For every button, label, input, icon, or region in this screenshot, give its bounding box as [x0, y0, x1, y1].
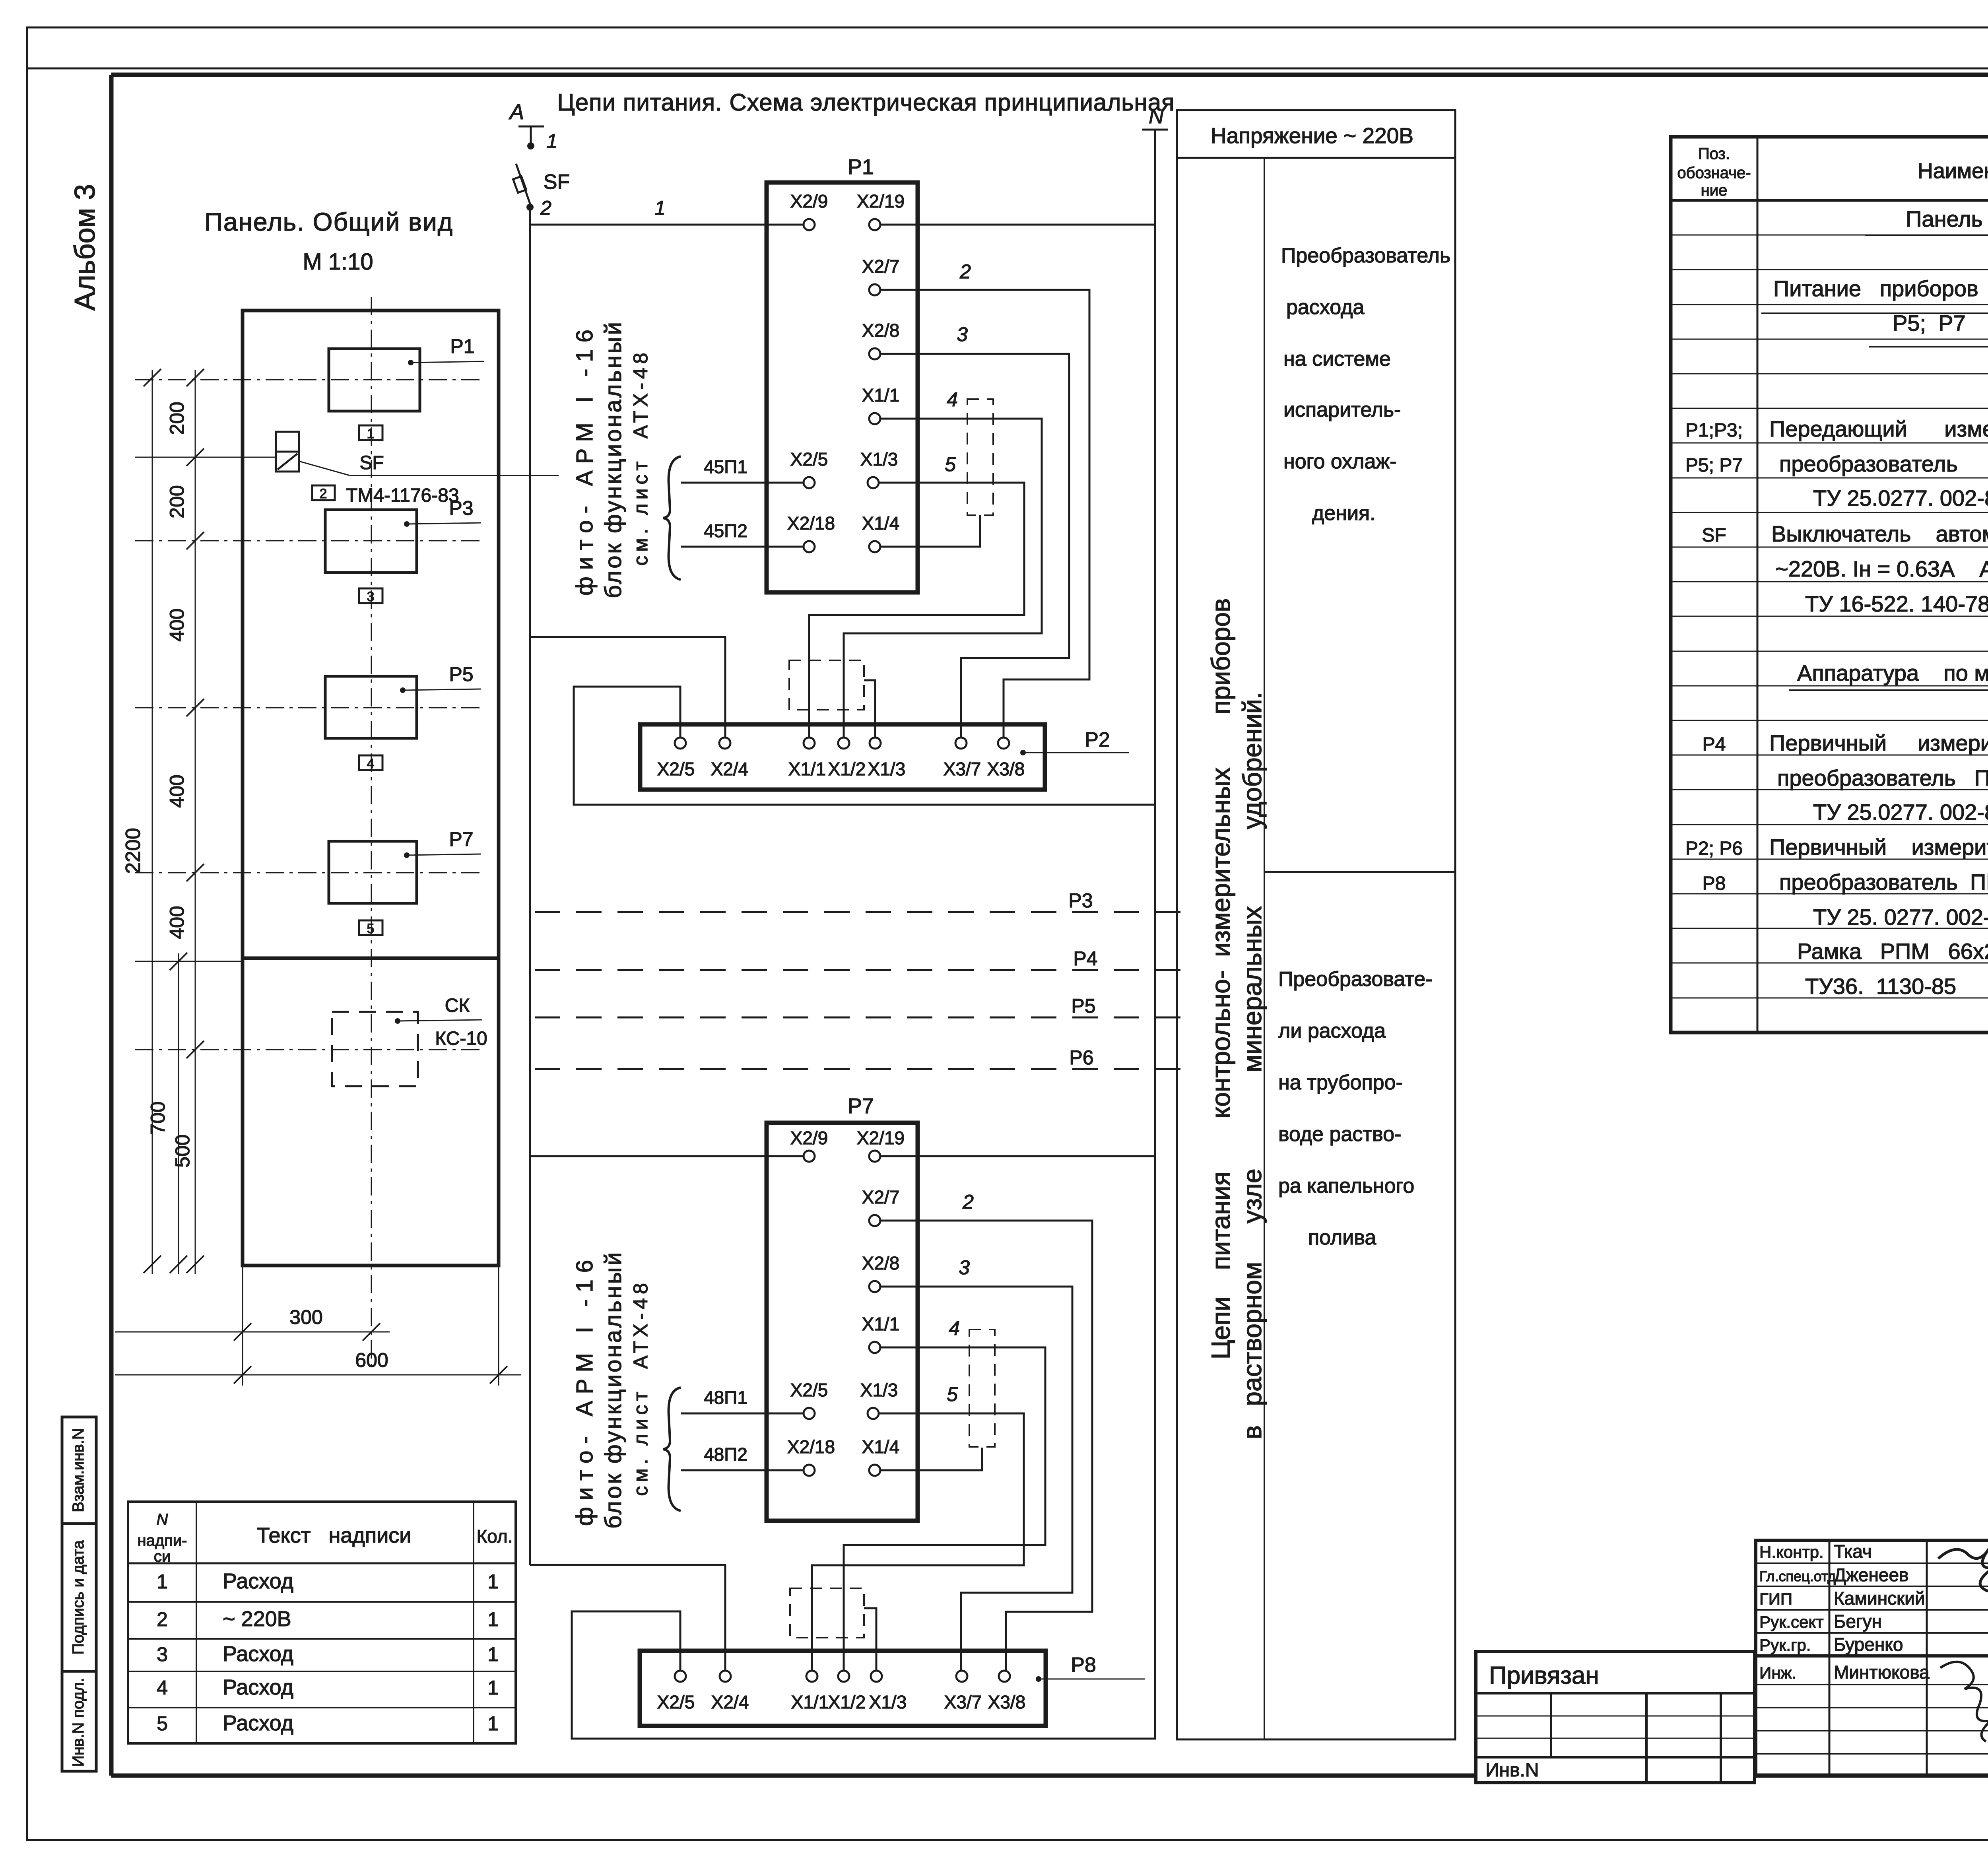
phase bus wire — [529, 207, 531, 1565]
breaker SF — [513, 164, 570, 205]
svg-text:X1/3: X1/3 — [869, 1692, 907, 1712]
switch SF on panel — [135, 432, 299, 472]
wire 45P1 to P1 X2/5 — [681, 456, 804, 483]
svg-text:фито- АРМ I -16: фито- АРМ I -16 — [572, 1253, 598, 1526]
svg-text:X2/19: X2/19 — [857, 191, 905, 212]
wire phase to P7 X2/9 — [530, 1155, 803, 1157]
album label — [69, 184, 101, 311]
terminal P2 X1/2 — [828, 738, 866, 779]
leader label P8 — [1036, 1654, 1145, 1682]
svg-text:Каминский: Каминский — [1834, 1588, 1925, 1609]
terminal P1 X2/8 — [862, 320, 900, 359]
svg-text:Текст надписи: Текст надписи — [257, 1524, 412, 1547]
svg-text:X2/4: X2/4 — [711, 759, 749, 779]
wire P7 X1/4 to connector — [880, 1448, 982, 1470]
svg-text:5: 5 — [157, 1712, 168, 1735]
terminal P2 X3/8 — [987, 738, 1025, 779]
svg-text:Минтюкова: Минтюкова — [1834, 1662, 1930, 1683]
svg-text:си: си — [154, 1548, 171, 1565]
svg-text:5: 5 — [945, 453, 956, 476]
terminal P7 X2/5 — [790, 1380, 828, 1419]
node 1 — [527, 130, 557, 152]
leader label P7 on panel — [404, 828, 481, 858]
svg-text:Р1: Р1 — [848, 155, 874, 179]
svg-text:2: 2 — [320, 486, 327, 501]
svg-text:3: 3 — [367, 589, 375, 604]
svg-text:ТУ 16-522. 140-78: ТУ 16-522. 140-78 — [1805, 591, 1988, 616]
svg-text:ТУ36. 1130-85: ТУ36. 1130-85 — [1805, 974, 1956, 999]
panel view title — [204, 208, 453, 275]
svg-text:Цепи питания. Схема электричес: Цепи питания. Схема электрическая принци… — [557, 89, 1175, 116]
svg-text:2: 2 — [157, 1608, 168, 1630]
svg-text:1: 1 — [546, 130, 557, 152]
svg-text:500: 500 — [171, 1134, 194, 1167]
svg-text:2200: 2200 — [122, 828, 145, 874]
connector frame dashed near P2 — [789, 660, 875, 739]
signature table — [1756, 1540, 1988, 1776]
svg-text:1: 1 — [157, 1570, 168, 1593]
svg-text:Рук.сект: Рук.сект — [1759, 1613, 1824, 1631]
svg-text:Р1;Р3;: Р1;Р3; — [1685, 420, 1743, 441]
svg-text:~220В. Iн = 0.63А АК63-2 МУ: ~220В. Iн = 0.63А АК63-2 МУ2 — [1775, 556, 1988, 581]
svg-text:2: 2 — [540, 197, 551, 219]
svg-text:X2/19: X2/19 — [857, 1128, 905, 1148]
svg-text:45П2: 45П2 — [704, 520, 747, 541]
wire 48P1 to P7 X2/5 — [681, 1387, 804, 1413]
svg-text:3: 3 — [157, 1643, 168, 1665]
svg-text:5: 5 — [367, 921, 375, 936]
svg-text:5: 5 — [947, 1383, 958, 1405]
terminal P1 X2/7 — [862, 256, 900, 295]
junction box CK dashed on panel — [135, 1012, 482, 1086]
terminal P8 X1/3 — [869, 1671, 907, 1712]
svg-text:ли расхода: ли расхода — [1278, 1019, 1386, 1042]
svg-text:1: 1 — [487, 1570, 499, 1593]
svg-text:600: 600 — [355, 1349, 388, 1371]
svg-text:Буренко: Буренко — [1834, 1634, 1903, 1655]
svg-text:Р3: Р3 — [449, 497, 473, 519]
wire 4 P1 X1/1 to P2 X1/2 — [844, 388, 1042, 739]
svg-text:45П1: 45П1 — [704, 456, 747, 477]
svg-text:дения.: дения. — [1312, 502, 1376, 525]
svg-text:полива: полива — [1308, 1226, 1376, 1249]
svg-text:Р5; Р7: Р5; Р7 — [1685, 455, 1743, 476]
connector frame dashed near P7 — [969, 1330, 995, 1447]
top header band — [27, 27, 1988, 68]
cable P4 dashed — [535, 947, 1185, 970]
numbered plate 3 — [359, 588, 382, 604]
leader label P2 — [1020, 728, 1129, 755]
cable P5 dashed — [535, 995, 1185, 1017]
panel dimensions — [115, 369, 521, 1386]
terminal P8 X1/1 — [791, 1671, 829, 1712]
terminal P8 X2/4 — [711, 1671, 749, 1712]
cable P6 dashed — [535, 1046, 1185, 1069]
object description cell — [1756, 1656, 1988, 1722]
phase terminal A — [509, 100, 544, 143]
svg-text:А: А — [509, 100, 524, 124]
device rectangle P5 on panel — [135, 676, 481, 738]
svg-text:Р4: Р4 — [1703, 734, 1726, 755]
wire 2 P7 X2/7 to P8 X3/8 — [880, 1191, 1092, 1672]
svg-text:преобразователь ПРИМ - 80: преобразователь ПРИМ - 80 — [1779, 870, 1988, 895]
svg-text:X1/1: X1/1 — [788, 759, 826, 779]
flow transducer note upper — [1281, 244, 1450, 525]
svg-text:4: 4 — [157, 1677, 168, 1699]
svg-text:X1/1: X1/1 — [862, 1314, 900, 1334]
svg-text:N: N — [1149, 105, 1164, 128]
wire phase branch to P8 X2/4 — [530, 1565, 725, 1672]
terminal P7 X1/4 — [862, 1436, 900, 1476]
svg-text:X2/9: X2/9 — [790, 1128, 828, 1148]
svg-text:Наименование: Наименование — [1918, 159, 1988, 183]
svg-text:200: 200 — [166, 485, 188, 518]
svg-text:Р2; Р6: Р2; Р6 — [1685, 838, 1743, 859]
svg-text:200: 200 — [166, 402, 188, 435]
svg-text:Привязан: Привязан — [1489, 1662, 1599, 1689]
wire 2 P1 X2/7 to P2 X3/8 — [880, 260, 1089, 739]
svg-text:2: 2 — [962, 1191, 974, 1213]
svg-text:Расход: Расход — [223, 1675, 293, 1699]
terminal P7 X1/1 — [862, 1314, 900, 1353]
terminal P2 X2/4 — [711, 738, 749, 779]
svg-text:преобразователь ИУ-61: преобразователь ИУ-61 — [1779, 451, 1988, 476]
binding block — [1476, 1652, 1755, 1783]
svg-text:1: 1 — [487, 1677, 499, 1699]
wire 45P2 to P1 X2/18 — [681, 520, 804, 547]
terminal P8 X1/2 — [828, 1671, 866, 1712]
terminal P7 X2/9 — [790, 1128, 828, 1162]
neutral bus wire N — [572, 130, 1155, 1739]
svg-text:X2/18: X2/18 — [787, 1436, 835, 1457]
device rectangle P7 on panel — [135, 841, 481, 903]
svg-text:X2/9: X2/9 — [790, 191, 828, 212]
primary transducer block P8 — [640, 1651, 1046, 1726]
terminal P2 X1/1 — [788, 738, 826, 779]
svg-text:3: 3 — [957, 323, 968, 345]
terminal P8 X2/5 — [657, 1671, 695, 1712]
svg-text:ТУ 25. 0277. 002-84: ТУ 25. 0277. 002-84 — [1813, 904, 1988, 930]
svg-text:N: N — [157, 1511, 168, 1528]
connector frame dashed near P1 — [967, 399, 993, 515]
svg-text:блок функциональный: блок функциональный — [600, 1250, 626, 1529]
node 2 — [526, 197, 551, 219]
wire 1 phase feeder to P1 X2/9 — [530, 197, 804, 225]
terminal P1 X1/1 — [862, 385, 900, 424]
svg-text:4: 4 — [947, 388, 958, 411]
numbered plate 5 — [359, 920, 382, 936]
svg-text:X1/3: X1/3 — [868, 759, 906, 779]
svg-text:ТМ4-1176-83: ТМ4-1176-83 — [346, 485, 459, 506]
svg-text:X1/1: X1/1 — [791, 1692, 829, 1712]
functional block P7 — [767, 1094, 918, 1521]
svg-text:см. лист АТХ-48: см. лист АТХ-48 — [629, 349, 652, 566]
svg-text:ТУ 25.0277. 002-84: ТУ 25.0277. 002-84 — [1813, 800, 1988, 825]
svg-text:расхода: расхода — [1286, 296, 1364, 319]
terminal P7 X1/3 — [860, 1380, 898, 1419]
primary transducer block P2 — [640, 724, 1045, 790]
flow transducer note lower — [1278, 968, 1433, 1249]
svg-text:Передающий измерительный: Передающий измерительный — [1769, 416, 1988, 441]
svg-text:X3/7: X3/7 — [944, 1692, 982, 1712]
svg-text:X1/4: X1/4 — [862, 1436, 900, 1457]
wire 3 P1 X2/8 to P2 X3/7 — [880, 323, 1069, 739]
svg-text:1: 1 — [367, 426, 375, 441]
svg-text:Расход: Расход — [223, 1642, 293, 1666]
schematic title — [557, 89, 1175, 116]
leader label P1 on panel — [408, 335, 484, 365]
terminal P1 X1/3 — [860, 449, 898, 488]
svg-text:Панель: Панель — [1906, 206, 1982, 231]
leader label P5 on panel — [400, 663, 481, 693]
svg-text:SF: SF — [359, 452, 384, 474]
panel vertical centerline — [371, 297, 372, 1370]
leader label SF TM4-1176-83 — [299, 452, 559, 506]
svg-text:300: 300 — [289, 1306, 322, 1328]
brace for external block lower — [663, 1388, 681, 1511]
svg-text:Поз.: Поз. — [1698, 145, 1730, 163]
svg-text:Питание приборов Р1; Р3;: Питание приборов Р1; Р3; — [1773, 276, 1988, 301]
terminal P1 X2/18 — [787, 513, 835, 552]
svg-text:Р5; Р7: Р5; Р7 — [1893, 311, 1966, 336]
svg-text:КС-10: КС-10 — [435, 1028, 487, 1049]
svg-text:X3/8: X3/8 — [988, 1692, 1026, 1712]
wire phase branch to P2 X2/4 — [530, 637, 725, 739]
svg-text:Инв.N: Инв.N — [1485, 1760, 1539, 1781]
leader label CK KC-10 — [395, 995, 487, 1049]
svg-text:1: 1 — [654, 197, 666, 219]
wire 3 P7 X2/8 to P8 X3/7 — [880, 1256, 1072, 1672]
inscriptions table — [128, 1502, 516, 1743]
svg-text:Преобразователь: Преобразователь — [1281, 244, 1450, 267]
terminal P1 X2/19 — [857, 191, 905, 230]
svg-text:Р6: Р6 — [1069, 1046, 1093, 1069]
svg-text:1: 1 — [487, 1712, 499, 1735]
numbered plate 2 — [312, 485, 335, 501]
svg-text:1: 1 — [487, 1608, 499, 1630]
svg-text:в растворном узле минерал: в растворном узле минеральных удобрений. — [1237, 692, 1267, 1439]
wire 5 P7 X1/3 to P8 X1/1 — [812, 1383, 1024, 1672]
brace for external block upper — [663, 456, 681, 580]
svg-text:СК: СК — [445, 995, 470, 1016]
wire 48P2 to P7 X2/18 — [681, 1444, 804, 1470]
svg-text:4: 4 — [367, 756, 375, 771]
wire P1 X2/19 to N bus — [880, 224, 1155, 226]
terminal P7 X2/8 — [862, 1253, 900, 1292]
panel outline — [243, 311, 499, 1265]
svg-text:Р5: Р5 — [1071, 995, 1095, 1017]
svg-text:на системе: на системе — [1283, 347, 1391, 371]
svg-text:Цепи питания контрольно- и: Цепи питания контрольно- измерительных п… — [1206, 598, 1235, 1360]
svg-text:Р7: Р7 — [848, 1094, 874, 1118]
svg-text:Преобразовате-: Преобразовате- — [1278, 968, 1433, 991]
svg-text:ТУ 25.0277. 002-84: ТУ 25.0277. 002-84 — [1813, 485, 1988, 510]
svg-text:Первичный измерительный: Первичный измерительный — [1769, 730, 1988, 755]
svg-text:X2/8: X2/8 — [862, 1253, 900, 1273]
svg-text:надпи-: надпи- — [138, 1532, 187, 1549]
parts table rows — [1685, 206, 1988, 999]
terminal P7 X2/18 — [787, 1436, 835, 1476]
svg-text:ного охлаж-: ного охлаж- — [1283, 450, 1397, 473]
svg-text:Р8: Р8 — [1071, 1654, 1096, 1677]
svg-text:48П2: 48П2 — [704, 1444, 747, 1465]
terminal P1 X1/4 — [862, 513, 900, 552]
svg-text:X2/5: X2/5 — [657, 1692, 695, 1712]
svg-text:400: 400 — [166, 906, 188, 939]
svg-text:Р3: Р3 — [1068, 889, 1093, 912]
svg-text:блок функциональный: блок функциональный — [600, 320, 626, 598]
svg-text:X2/5: X2/5 — [790, 449, 828, 470]
svg-text:ние: ние — [1701, 182, 1728, 199]
svg-text:Расход: Расход — [223, 1569, 293, 1593]
svg-text:X1/1: X1/1 — [862, 385, 900, 406]
svg-text:Ткач: Ткач — [1834, 1541, 1872, 1562]
connector frame dashed near P8 — [790, 1588, 876, 1672]
wire P2 X2/5 loop to N bus — [574, 687, 1155, 805]
svg-text:ГИП: ГИП — [1759, 1590, 1792, 1608]
svg-text:ра капельного: ра капельного — [1278, 1174, 1414, 1198]
svg-text:Инв.N подл.: Инв.N подл. — [70, 1678, 87, 1767]
svg-text:воде раство-: воде раство- — [1278, 1123, 1401, 1146]
svg-text:Первичный измерительный: Первичный измерительный — [1769, 835, 1988, 860]
svg-text:Р1: Р1 — [450, 335, 474, 357]
svg-text:Н.контр.: Н.контр. — [1759, 1543, 1824, 1561]
external block label lower phyto-ARM — [572, 1250, 652, 1529]
wire 4 P7 X1/1 to P8 X1/2 — [844, 1317, 1045, 1672]
svg-text:X2/7: X2/7 — [862, 1187, 900, 1207]
svg-text:X1/2: X1/2 — [828, 1692, 866, 1712]
leader label P3 on panel — [404, 497, 481, 527]
svg-text:Выключатель автоматический: Выключатель автоматический — [1771, 521, 1988, 546]
svg-text:Р5: Р5 — [449, 663, 473, 685]
svg-text:400: 400 — [166, 774, 188, 807]
wire 5 P1 X1/3 to P2 X1/1 — [809, 453, 1024, 739]
svg-text:X1/4: X1/4 — [862, 513, 900, 534]
terminal P1 X2/5 — [790, 449, 828, 488]
svg-text:2: 2 — [959, 260, 971, 283]
svg-text:обозначе-: обозначе- — [1677, 164, 1751, 182]
svg-text:Кол.: Кол. — [477, 1526, 513, 1547]
svg-text:1: 1 — [487, 1643, 499, 1665]
numbered plate 1 — [359, 425, 382, 441]
svg-text:Р8: Р8 — [1703, 873, 1726, 894]
wire P1 X1/4 to connector — [880, 515, 980, 547]
terminal P8 X3/8 — [988, 1671, 1026, 1712]
svg-text:Рук.гр.: Рук.гр. — [1759, 1636, 1811, 1654]
svg-text:Расход: Расход — [223, 1711, 293, 1735]
svg-text:3: 3 — [959, 1256, 970, 1279]
device rectangle P3 on panel — [135, 510, 481, 573]
external block label upper phyto-ARM — [572, 320, 652, 598]
svg-text:X1/3: X1/3 — [860, 1380, 898, 1400]
svg-text:X2/5: X2/5 — [790, 1380, 828, 1400]
wire P7 X2/19 to N bus — [880, 1155, 1155, 1157]
svg-text:Подпись и дата: Подпись и дата — [70, 1540, 87, 1654]
cable P3 dashed — [535, 889, 1185, 912]
svg-text:X2/4: X2/4 — [711, 1692, 749, 1712]
terminal P2 X1/3 — [868, 738, 906, 779]
left attribute strip — [62, 1417, 96, 1771]
svg-text:Панель. Общий вид: Панель. Общий вид — [204, 208, 453, 236]
svg-text:фито- АРМ I -16: фито- АРМ I -16 — [572, 323, 598, 596]
svg-text:Бегун: Бегун — [1834, 1611, 1882, 1632]
voltage column — [1177, 110, 1455, 1739]
svg-text:испаритель-: испаритель- — [1283, 398, 1401, 421]
parts list table — [1671, 137, 1988, 1033]
terminal P1 X2/9 — [790, 191, 828, 230]
svg-text:700: 700 — [147, 1101, 169, 1134]
svg-text:4: 4 — [949, 1317, 960, 1339]
svg-text:X1/2: X1/2 — [828, 759, 866, 779]
vertical net description circuits — [1206, 598, 1267, 1439]
functional block P1 — [767, 155, 918, 592]
svg-text:Взам.инв.N: Взам.инв.N — [70, 1428, 87, 1512]
terminal P2 X3/7 — [944, 738, 981, 779]
svg-text:~ 220В: ~ 220В — [223, 1607, 291, 1631]
svg-text:X3/7: X3/7 — [944, 759, 981, 779]
svg-text:X3/8: X3/8 — [987, 759, 1025, 779]
terminal P7 X2/19 — [857, 1128, 905, 1162]
svg-text:Аппаратура по месту: Аппаратура по месту — [1797, 660, 1988, 685]
neutral terminal N — [1142, 105, 1168, 130]
svg-text:400: 400 — [166, 608, 188, 641]
svg-text:Гл.спец.отд: Гл.спец.отд — [1759, 1568, 1836, 1584]
svg-text:М 1:10: М 1:10 — [303, 249, 373, 275]
svg-text:преобразователь ПРИМ-50: преобразователь ПРИМ-50 — [1777, 765, 1988, 790]
svg-text:Р2: Р2 — [1085, 728, 1110, 751]
svg-text:Альбом 3: Альбом 3 — [69, 184, 101, 311]
device rectangle P1 on panel — [135, 349, 484, 411]
svg-text:Р7: Р7 — [449, 828, 473, 850]
svg-text:Р4: Р4 — [1073, 947, 1097, 970]
numbered plate 4 — [359, 755, 382, 771]
svg-text:Дженеев: Дженеев — [1834, 1564, 1909, 1585]
svg-text:см. лист АТХ-48: см. лист АТХ-48 — [629, 1279, 652, 1496]
svg-text:SF: SF — [1702, 525, 1726, 546]
svg-text:на трубопро-: на трубопро- — [1278, 1071, 1403, 1094]
svg-text:X2/8: X2/8 — [862, 320, 900, 341]
svg-text:X1/3: X1/3 — [860, 449, 898, 470]
svg-text:Рамка РПМ 66х26: Рамка РПМ 66х26 — [1797, 939, 1988, 964]
svg-text:Напряжение ~ 220В: Напряжение ~ 220В — [1211, 123, 1413, 148]
svg-text:X2/18: X2/18 — [787, 513, 835, 534]
svg-text:SF: SF — [544, 171, 570, 194]
terminal P7 X2/7 — [862, 1187, 900, 1226]
terminal P2 X2/5 — [657, 738, 695, 779]
svg-text:Инж.: Инж. — [1759, 1663, 1796, 1682]
terminal P8 X3/7 — [944, 1671, 982, 1712]
svg-text:X2/5: X2/5 — [657, 759, 695, 779]
svg-text:X2/7: X2/7 — [862, 256, 900, 277]
svg-text:48П1: 48П1 — [704, 1387, 747, 1408]
